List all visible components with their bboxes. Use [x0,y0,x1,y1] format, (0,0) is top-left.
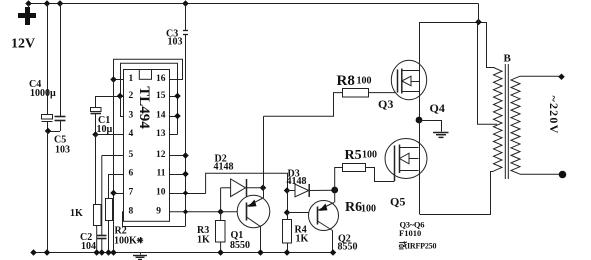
node C4/C5 join dot [45,128,52,135]
node pin2 junction [117,93,124,100]
svg-text:10µ: 10µ [97,124,113,135]
svg-text:100: 100 [357,76,372,87]
wire pin2 feedback loop (left vertical + top + right down to pin15) [121,63,178,134]
Q5 body stub with arrow [400,158,419,160]
wire Q2 collector down to rail [332,231,334,254]
svg-text:14: 14 [156,111,166,121]
svg-text:6: 6 [129,169,134,179]
wire pin3 stub [120,116,124,118]
svg-text:13: 13 [156,129,166,139]
wire joining C4/C5 bottoms [47,131,60,133]
wire pin14 stub [170,116,178,118]
svg-text:16: 16 [156,74,166,84]
svg-text:2: 2 [129,91,134,101]
node D3 anode junction [284,187,291,194]
svg-text:8550: 8550 [230,240,250,251]
capacitor C2 plates [97,235,107,237]
node Q2 base junction [284,209,291,216]
node pin12 junction [182,152,189,159]
svg-text:100: 100 [361,204,376,215]
wire pin9 output stub [170,211,221,213]
svg-text:4148: 4148 [214,162,234,173]
wire down to resistor 1K [95,135,97,205]
wire pin1 feedback loop (left vertical + top + right down to pin16) [114,59,183,79]
node pin11 junction [182,171,189,178]
node output terminal top [558,73,565,80]
transistor Q3 MOSFET body [391,60,426,99]
wire Q5 bottom route to transformer primary bottom [420,172,494,215]
node R4 rail dot [284,249,291,256]
wire bottom ground rail [34,252,334,254]
Chinese character "or" glyph [399,241,407,249]
diode D3 4148 [295,184,309,197]
wire Q3 drain vertical [419,22,421,120]
transformer core [504,64,506,179]
wire R5 to Q5 gate [366,168,395,182]
node pin10 crossing junction [183,190,188,195]
svg-text:104: 104 [81,241,96,252]
wire pin2 net horizontal (to C1 top) [96,96,124,98]
wire top +12V rail [29,3,479,5]
node pin7-line rail dot [110,249,117,256]
resistor 1K body [94,205,102,226]
node C2 rail dot [99,249,106,256]
node C4 junction on rail [44,0,51,7]
svg-text:100: 100 [362,150,377,161]
svg-text:15: 15 [156,91,166,101]
svg-text:1K: 1K [70,208,83,219]
node top-rail terminal dot [25,0,32,7]
ground [433,133,449,138]
wire top route to R8 [264,93,343,117]
wire Q1 collector down to rail [260,227,262,254]
svg-text:B: B [504,53,512,65]
wire pin10 route up and right to Q2 stage [206,173,288,193]
Q5 gate bar [394,146,396,182]
op-amp U1 TL494 body [124,70,170,222]
svg-text:~220V: ~220V [547,96,561,135]
wire secondary bottom output [520,173,561,175]
svg-text:12V: 12V [11,37,35,52]
wire from + terminal to rail [28,4,30,9]
node pin14 junction [174,113,181,120]
wire pin1-line down to pin7/ground column [113,80,115,254]
svg-text:1K: 1K [197,235,210,246]
svg-text:Q3: Q3 [378,97,393,111]
node Q3 source junction [416,117,423,124]
transistor Q5 MOSFET body [385,139,427,179]
svg-text:100K: 100K [114,236,137,247]
node Q1 base junction [217,209,224,216]
svg-text:R8: R8 [337,73,355,89]
wire C1 bottom to pin4 node [95,114,97,135]
node 1K rail dot [93,249,100,256]
Q5 drain stub [400,147,419,149]
wire pin6 down to R2 [108,174,110,198]
svg-text:9: 9 [156,207,161,217]
capacitor C3 plates [183,30,188,32]
wire Q2 collector diagonal [318,221,333,231]
resistor R8 100 body [343,89,369,98]
wire pin7 stub [114,193,124,195]
wire R2 to ground rail [108,220,110,253]
svg-text:8: 8 [129,207,134,217]
node pin15 junction [174,93,181,100]
battery + terminal symbol [18,7,36,25]
wire C5 branch from rail [60,4,62,117]
node Q1 collector rail dot [257,249,264,256]
node rail left terminal [30,249,37,256]
Q5 source stub [400,170,419,172]
wire Q2 base [287,212,309,214]
Q3 gate bar [397,69,399,92]
wire C4 branch from rail [47,4,49,115]
capacitor C1 plates [91,108,102,112]
wire D3 cathode to Q2 gate-drive node [309,189,335,191]
node pin7 junction [110,190,117,197]
node C5 junction on rail [57,0,64,7]
wire Q2 emitter up to drive node [334,190,336,203]
node pin4/C1 junction [92,131,99,138]
transistor Q1 8550 body [237,195,270,228]
wire to ground symbol [420,121,442,132]
svg-text:IRFP250: IRFP250 [407,242,436,251]
wire gate-drive vertical into Q1 emitter [263,116,265,198]
svg-text:103: 103 [168,37,183,48]
svg-text:R6: R6 [345,200,362,215]
capacitor C4 plates [42,115,53,120]
wire Q5 drain vertical [419,120,421,214]
wire pin8 under-IC route [123,212,186,227]
wire VCC vertical line from rail (with C3 in series) [185,4,187,31]
svg-text:1K: 1K [296,234,309,245]
svg-text:TL494: TL494 [136,86,152,129]
wire pin10 column down to Q2 base [287,191,289,213]
svg-text:10: 10 [156,188,166,198]
svg-text:4: 4 [129,129,134,139]
svg-text:7: 7 [129,188,134,198]
wire pin11 stub [170,174,186,176]
svg-text:5: 5 [129,150,134,160]
node D2 cathode junction [260,185,267,192]
node output terminal bottom [559,171,567,179]
resistor R5 100 body [343,164,366,172]
Q3 drain stub [402,70,419,72]
wire 1K to ground rail [96,226,98,254]
wire pin2-line down to pin3 [120,96,122,116]
wire D2 cathode to gate-drive node [246,187,263,189]
wire pin15 stub [170,96,178,98]
wire C1 top lead [95,96,97,108]
wire D2 anode riser [220,188,222,212]
svg-text:4148: 4148 [287,176,307,187]
wire R8 to Q3 gate [368,92,397,94]
wire Q1 collector diagonal [247,217,261,227]
node pin1 junction [110,76,117,83]
resistor R2 100K body [106,199,113,221]
wire down to R3 [220,212,222,221]
diode D2 4148 [231,179,246,197]
svg-text:Q5: Q5 [390,195,405,209]
node VCC-line junction on rail [182,0,189,7]
node +12V drop junction [475,19,482,26]
Q3 channel bar [401,69,403,94]
wire Q2 emitter diagonal [318,203,335,211]
wire drive node up to R5 [335,168,343,191]
node pin9 crossing junction [183,209,188,214]
wire pin5 down to C2 [101,156,103,236]
Q3 source stub [402,91,419,93]
node Q2 collector rail dot (rail end) [330,249,337,256]
svg-text:1000µ: 1000µ [30,88,56,99]
node D3 cathode junction [331,187,338,194]
wire Q1 emitter diagonal [247,198,264,207]
svg-text:Q4: Q4 [430,101,445,115]
svg-text:8550: 8550 [338,242,358,253]
resistor R4 1K body [283,220,292,244]
node R3 rail dot [217,249,224,256]
wire pin10 output stub [170,193,206,195]
node C4/C5 rail dot [44,249,51,256]
node R2 rail dot [105,249,112,256]
svg-text:3: 3 [129,111,134,121]
wire R3 to ground rail [220,242,222,253]
R2 adjustable star mark [137,237,143,243]
wire down to R4 [287,213,289,220]
ground symbol on rail [140,253,142,255]
transformer B secondary winding [511,76,520,174]
wire C2 to ground rail [101,238,103,253]
Q5 channel bar [399,145,401,174]
wire R4 to ground rail [287,243,289,254]
svg-text:1: 1 [129,74,134,84]
wire pin5 net horizontal [102,155,124,157]
wire +12V rail drop [478,4,480,23]
transistor Q2 8550 body [309,201,339,231]
wire pin1 stub [114,79,124,81]
node IC notch [139,70,151,80]
wire pin4 net horizontal [96,134,124,136]
wire Q1 base [221,211,238,213]
transformer B primary winding [494,68,503,172]
wire pin6 net horizontal [109,174,124,176]
Q3 body stub with arrow [402,81,419,83]
wire D3 anode lead [287,190,295,192]
resistor R3 1K body [216,221,226,243]
svg-text:F1010: F1010 [399,228,421,238]
svg-text:11: 11 [157,169,166,179]
wire drain top route to transformer primary top [420,23,495,68]
wire pin12 stub [170,155,186,157]
wire pin13 stub [170,134,178,136]
capacitor C5 plates [55,116,66,118]
svg-text:R5: R5 [345,148,362,163]
wire center-tap feed [478,22,498,124]
svg-text:103: 103 [55,145,70,156]
wire C4/C5 down to ground rail [47,131,49,253]
wire secondary top output [520,75,562,77]
svg-text:12: 12 [156,150,166,160]
